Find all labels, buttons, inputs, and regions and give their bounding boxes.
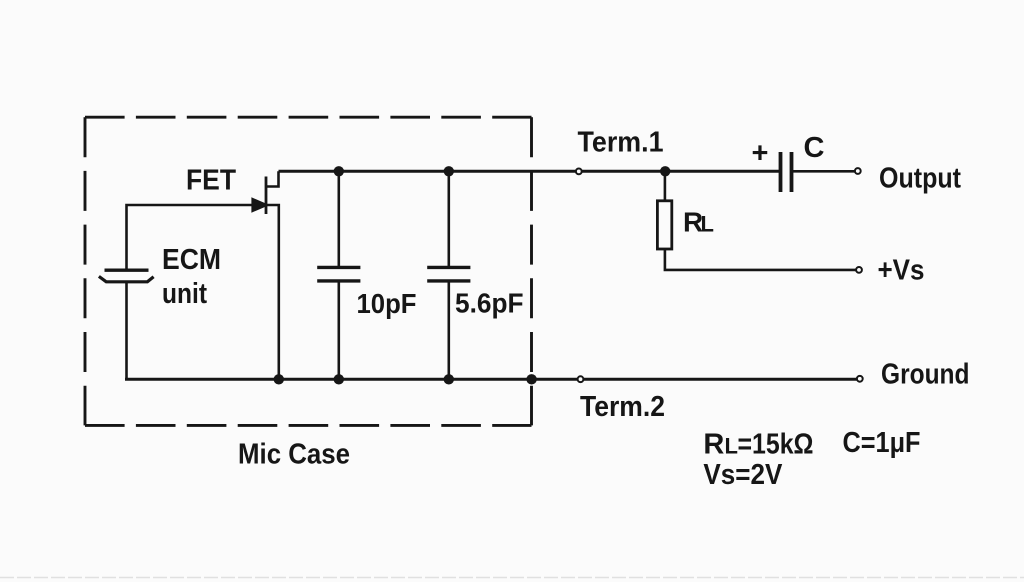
- wire: ECM bottom electrode to ground bus: [125, 282, 128, 381]
- faint video seek bar line at bottom: [0, 577, 1024, 579]
- mic case dashed enclosure top edge: [85, 116, 532, 119]
- node: junction ground bus / 10pF: [334, 374, 344, 384]
- transistor FET gate arrowhead: [252, 198, 268, 212]
- node: junction ground bus / FET source: [274, 374, 284, 384]
- resistor RL body: [657, 201, 671, 249]
- svg-text:ECM: ECM: [162, 244, 221, 276]
- wire: top signal wire (FET drain to C+ plate): [279, 170, 780, 173]
- terminal Term.1 open circle: [576, 169, 582, 175]
- resistor RL bottom lead and wire to +Vs terminal: [665, 249, 856, 270]
- capacitor ECM unit electret capsule bent bottom plate: [99, 276, 154, 281]
- svg-text:Output: Output: [879, 162, 961, 194]
- transistor FET source lead down to ground bus: [266, 205, 279, 380]
- capacitor ECM unit electret capsule top plate: [105, 269, 149, 272]
- resistor RL top lead: [664, 171, 667, 200]
- mic case dashed enclosure left edge: [84, 117, 87, 425]
- svg-text:L: L: [725, 434, 738, 459]
- svg-text:Term.1: Term.1: [578, 126, 664, 158]
- node: junction top wire / 5.6pF: [444, 166, 454, 176]
- terminal Output open circle: [855, 168, 861, 174]
- svg-text:+: +: [752, 138, 769, 170]
- node: junction ground bus / mic case edge: [526, 374, 536, 384]
- mic case dashed enclosure right edge: [530, 117, 533, 425]
- node: junction top wire / RL (Term.1 node): [660, 166, 670, 176]
- mic case dashed enclosure bottom edge: [85, 424, 532, 427]
- capacitor C2 5.6pF bottom lead: [447, 282, 450, 380]
- terminal Ground open circle: [857, 376, 863, 382]
- capacitor C1 10pF plates: [317, 267, 360, 281]
- node: junction top wire / 10pF: [334, 166, 344, 176]
- capacitor C1 10pF top lead: [337, 171, 340, 266]
- capacitor C2 5.6pF top lead: [447, 171, 450, 266]
- svg-text:C=1μF: C=1μF: [843, 427, 921, 459]
- svg-text:C: C: [804, 132, 825, 164]
- svg-text:FET: FET: [186, 165, 236, 197]
- svg-text:Term.2: Term.2: [580, 391, 665, 423]
- svg-text:+Vs: +Vs: [878, 254, 925, 286]
- svg-text:10pF: 10pF: [357, 288, 417, 319]
- svg-text:5.6pF: 5.6pF: [455, 288, 524, 319]
- wire: ground bus (ECM to Ground terminal): [125, 378, 857, 381]
- terminal +Vs open circle: [856, 267, 862, 273]
- svg-text:Mic Case: Mic Case: [238, 439, 350, 471]
- node: junction ground bus / 5.6pF: [444, 374, 454, 384]
- capacitor C (1uF coupling) plates: [781, 152, 792, 192]
- wire: ECM top electrode to FET gate: [127, 205, 259, 270]
- svg-text:L: L: [701, 212, 714, 237]
- svg-text:unit: unit: [162, 278, 207, 310]
- capacitor C2 5.6pF plates: [427, 267, 470, 281]
- capacitor C1 10pF bottom lead: [337, 282, 340, 380]
- transistor FET drain lead: [266, 171, 279, 186]
- transistor FET (JFET) channel bar: [265, 177, 268, 215]
- svg-text:R: R: [703, 429, 724, 461]
- svg-text:Ground: Ground: [881, 358, 970, 390]
- wire: C output side to Output terminal: [792, 170, 855, 173]
- terminal Term.2 open circle: [578, 376, 584, 382]
- svg-text:=15kΩ: =15kΩ: [738, 429, 814, 461]
- svg-text:Vs=2V: Vs=2V: [703, 459, 783, 491]
